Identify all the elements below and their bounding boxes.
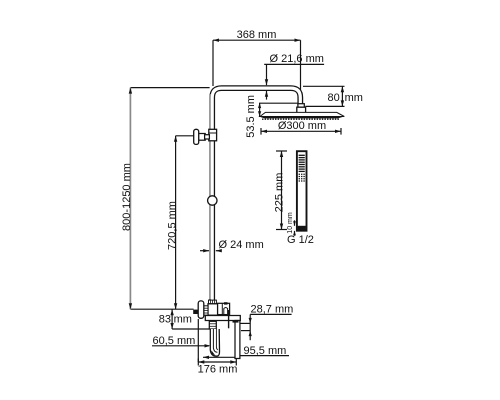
arrow 83 up xyxy=(170,309,173,315)
wand spray dotted part xyxy=(299,174,305,181)
dim 368 ext left xyxy=(212,40,214,86)
right block lever mark xyxy=(224,302,228,304)
dim 176 ext left xyxy=(197,319,199,362)
mixer body xyxy=(208,304,218,315)
arrow 176 right xyxy=(230,360,236,363)
dim 28.7 stub2 xyxy=(241,330,250,332)
head connector nut xyxy=(298,104,304,108)
svg-text:mm: mm xyxy=(174,314,192,326)
dim 53.5 ref line xyxy=(260,102,299,104)
dim 60.5 underline xyxy=(152,345,209,347)
svg-text:G 1/2: G 1/2 xyxy=(287,234,314,246)
svg-text:368 mm: 368 mm xyxy=(237,29,277,41)
arrow 300 right xyxy=(335,130,341,133)
svg-text:95,5 mm: 95,5 mm xyxy=(244,345,287,357)
dim 800-1250 ref top xyxy=(130,87,209,89)
dim 300 tick right xyxy=(340,128,342,135)
dim 80 ref top xyxy=(303,85,345,87)
bracket leg xyxy=(235,321,240,359)
dim 28.7 leader xyxy=(249,314,251,340)
dim 368 line xyxy=(213,39,301,41)
arrow 60.5 right xyxy=(205,344,211,347)
shower head body xyxy=(260,112,344,116)
svg-text:Ø 21,6 mm: Ø 21,6 mm xyxy=(270,53,324,65)
svg-text:176 mm: 176 mm xyxy=(198,364,238,376)
riser left edge shading xyxy=(209,94,211,299)
slider stem square xyxy=(205,135,210,139)
svg-text:Ø 24 mm: Ø 24 mm xyxy=(219,239,264,251)
slider knob xyxy=(194,129,199,144)
spout xyxy=(210,329,219,356)
svg-text:53.5 mm: 53.5 mm xyxy=(245,95,257,138)
dim 21.6 underline xyxy=(264,63,324,65)
mixer knob flange xyxy=(198,301,204,318)
dim 300 tick left xyxy=(260,128,262,135)
arrow 10 up xyxy=(293,231,296,236)
spout inner line right xyxy=(216,329,217,350)
dim 28.7 underline xyxy=(250,313,291,315)
arrow 720.5 up xyxy=(174,136,177,142)
slider block on riser xyxy=(209,129,217,141)
svg-text:800-1250 mm: 800-1250 mm xyxy=(121,163,133,231)
riser and arm pipe xyxy=(212,88,300,300)
arrow 368 left xyxy=(213,39,219,42)
arrow 28.7 down xyxy=(249,318,252,324)
arrow 53.5 up xyxy=(258,103,261,108)
right block n-detail xyxy=(224,308,228,315)
dim 95.5 leader xyxy=(203,356,240,358)
dim 176 tick left xyxy=(197,359,199,366)
dim 225 tick top xyxy=(276,150,287,152)
svg-text:28,7 mm: 28,7 mm xyxy=(251,303,294,315)
dim 83 line xyxy=(171,309,173,329)
mixer knob dark square xyxy=(193,310,198,314)
shower head spray serration xyxy=(262,118,340,120)
slider stem xyxy=(199,134,206,141)
arrow 10 down xyxy=(293,221,296,226)
mixer collar xyxy=(209,300,217,304)
arrow 21.6 up xyxy=(265,91,268,97)
arrow 80 down xyxy=(341,100,344,106)
arrow 28.7 up xyxy=(249,331,252,337)
spout tip xyxy=(211,350,215,355)
dim 21.6 leader lower xyxy=(266,91,268,100)
svg-text:720,5 mm: 720,5 mm xyxy=(167,201,179,250)
dim 80 ref bottom xyxy=(305,105,344,107)
arrow 24 right xyxy=(203,249,209,252)
arrow 176 left xyxy=(198,360,204,363)
wand spray stripes xyxy=(299,155,305,171)
mixer collar ribs xyxy=(211,300,215,304)
arrow 21.6 down xyxy=(265,79,268,85)
arrow 800-1250 up xyxy=(129,88,132,94)
arrow 53.5 down xyxy=(258,111,261,116)
ball joint xyxy=(208,196,217,205)
arrow 80 up xyxy=(341,86,344,92)
dim 24 arrow tails xyxy=(200,250,209,252)
dim 28.7 stub1 xyxy=(241,322,251,324)
dim 800-1250 ref bottom xyxy=(130,308,193,310)
wand outline xyxy=(297,151,307,231)
dim 176 tick right xyxy=(235,359,237,366)
wand thread band xyxy=(298,226,306,231)
spout inner line left xyxy=(213,329,217,352)
svg-text:225 mm: 225 mm xyxy=(274,173,286,213)
arrow 720.5 down xyxy=(174,303,177,309)
shelf xyxy=(205,316,240,321)
shower head dark face xyxy=(258,116,344,118)
right block inner line xyxy=(221,303,223,314)
arrow 800-1250 down xyxy=(129,303,132,309)
dim 176 line xyxy=(198,361,236,363)
dim 225 tick bottom xyxy=(276,229,287,231)
dim 83 ref bottom xyxy=(172,328,209,330)
arrow 368 right xyxy=(295,39,301,42)
arrow 95.5 left xyxy=(203,356,209,359)
svg-text:60,5 mm: 60,5 mm xyxy=(153,335,196,347)
dim 80 line xyxy=(341,86,343,106)
left ribbed connector xyxy=(204,306,208,315)
arrow 225 up xyxy=(280,151,283,157)
arrow 300 left xyxy=(261,130,267,133)
svg-text:10 mm: 10 mm xyxy=(287,212,294,234)
svg-text:mm: mm xyxy=(345,92,363,104)
dim 10 leader lower xyxy=(294,231,296,236)
dim 95.5 underline xyxy=(240,355,289,357)
dim 225 line xyxy=(281,151,283,230)
hose line xyxy=(228,310,230,328)
dim 720.5 line xyxy=(175,136,177,309)
dim 720.5 ref top xyxy=(176,135,194,137)
dim 800-1250 line (gray) xyxy=(129,88,131,310)
spout ribbed connector xyxy=(209,321,216,329)
dim 21.6 leader upper xyxy=(266,64,268,85)
arrow 225 down xyxy=(280,224,283,230)
dim 10 leader upper xyxy=(294,220,296,226)
dim 368 ext right xyxy=(300,40,302,103)
mixer right block xyxy=(218,303,230,314)
head left ext xyxy=(259,103,261,117)
svg-text:Ø300 mm: Ø300 mm xyxy=(278,120,326,132)
arrow 24 left xyxy=(216,249,222,252)
arrow 83 down xyxy=(170,323,173,329)
dim 300 line xyxy=(261,130,341,132)
shelf dark mark xyxy=(233,321,239,323)
svg-text:83: 83 xyxy=(159,314,171,326)
head connector block xyxy=(297,107,306,113)
slider block cap line xyxy=(209,132,217,134)
svg-text:80: 80 xyxy=(328,92,340,104)
